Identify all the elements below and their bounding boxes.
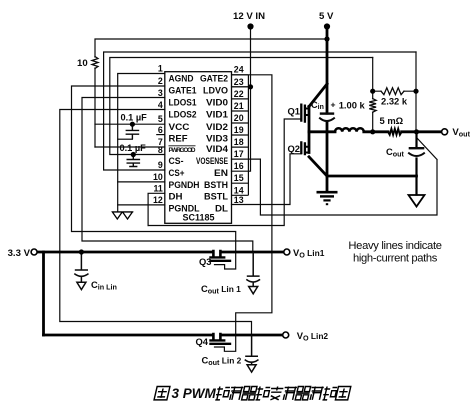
- wire to Vout terminal: [402, 130, 442, 133]
- terminal dot 5V: [324, 23, 330, 29]
- svg-text:Q1: Q1: [288, 106, 301, 117]
- junction divider node A: [370, 89, 375, 94]
- transistor Q1: [301, 104, 305, 123]
- svg-text:BSTH: BSTH: [204, 180, 228, 190]
- svg-text:18: 18: [234, 137, 244, 147]
- wire cap C1 bottom to AGND: [118, 138, 133, 140]
- wire 3.3V heavy branch down: [42, 252, 45, 335]
- svg-text:5 V: 5 V: [319, 11, 334, 22]
- svg-text:3: 3: [158, 88, 163, 98]
- svg-text:Q4: Q4: [196, 336, 209, 347]
- svg-text:15: 15: [234, 173, 244, 183]
- svg-text:10: 10: [153, 172, 163, 182]
- wire CS+ sense pin9 to divider right: [104, 52, 416, 170]
- svg-text:9: 9: [158, 160, 163, 170]
- svg-text:LDVO: LDVO: [203, 86, 228, 96]
- pin ladder right edge: [247, 75, 249, 196]
- svg-text:AGND: AGND: [169, 74, 194, 84]
- terminal 3.3V: [31, 249, 37, 255]
- wire LDOS1 pin3 sense Vo Lin1: [82, 98, 253, 253]
- wire GATE1 pin2 to Q3 gate: [72, 86, 236, 269]
- junction divider node B: [413, 89, 418, 94]
- svg-text:24: 24: [234, 65, 244, 75]
- svg-text:VCC: VCC: [169, 122, 191, 132]
- svg-text:5 mΩ: 5 mΩ: [380, 115, 404, 126]
- svg-text:+: +: [331, 100, 336, 110]
- svg-text:Cin: Cin: [311, 100, 324, 111]
- svg-text:GATE2: GATE2: [200, 74, 228, 84]
- svg-text:EN: EN: [214, 168, 228, 178]
- wire PGNDH pin10: [118, 181, 165, 183]
- wire VOSENSE pin17 to Vout sense: [232, 138, 438, 215]
- svg-text:16: 16: [234, 161, 244, 171]
- wire bottom ground heavy: [327, 175, 417, 178]
- svg-text:17: 17: [234, 149, 244, 159]
- svg-text:high-current paths: high-current paths: [353, 253, 438, 265]
- wire divider node A vertical: [372, 58, 374, 133]
- svg-text:0.1 µF: 0.1 µF: [120, 143, 147, 153]
- pin numbers left 1-12: [153, 64, 163, 206]
- ground arrow under Cin Lin: [77, 282, 86, 289]
- ground arrow under Cout Lin 2: [247, 365, 256, 372]
- wire 2.32k stubs: [373, 90, 416, 92]
- svg-text:6: 6: [158, 125, 163, 135]
- svg-text:12 V IN: 12 V IN: [233, 11, 265, 22]
- svg-text:Heavy lines indicate: Heavy lines indicate: [348, 240, 442, 252]
- wire rail to Q1 drain diagonal: [309, 84, 327, 107]
- ground arrow under Cout Lin 1: [249, 287, 258, 294]
- svg-text:22: 22: [234, 89, 244, 99]
- ground double-triangle AGND: [112, 212, 133, 219]
- terminal dot 12V: [247, 23, 253, 29]
- svg-text:CS+: CS+: [169, 168, 185, 178]
- wire CS- sense pin8 to divider left: [110, 58, 373, 155]
- capacitor Cin Lin: [74, 252, 88, 282]
- svg-text:Q2: Q2: [288, 143, 301, 154]
- svg-text:VID0: VID0: [206, 98, 228, 108]
- svg-text:3 PWM: 3 PWM: [172, 386, 217, 401]
- capacitor Cout Lin 2: [245, 335, 259, 365]
- wire VCC pin5: [95, 123, 165, 125]
- wire 12V feed to LDVO and EN: [232, 27, 251, 172]
- svg-text:VOSENSE: VOSENSE: [196, 156, 228, 166]
- svg-text:VID1: VID1: [206, 110, 228, 120]
- wire pin12 PGNDL: [118, 204, 165, 206]
- svg-text:10: 10: [77, 58, 88, 69]
- svg-text:3.3 V: 3.3 V: [8, 248, 31, 259]
- svg-text:0.1 µF: 0.1 µF: [121, 113, 148, 123]
- wire 5V to R1 top: [95, 39, 327, 147]
- inductor L1: [335, 128, 364, 132]
- junction VCC cap C1: [130, 122, 135, 127]
- svg-text:12: 12: [153, 195, 163, 205]
- capacitor C1 0.1uF: [126, 124, 140, 139]
- svg-text:1: 1: [158, 64, 163, 74]
- svg-text:4: 4: [158, 100, 163, 110]
- capacitor C2 0.1uF: [127, 155, 141, 167]
- wire pin11 DH: [148, 193, 165, 225]
- svg-text:VO Lin1: VO Lin1: [293, 247, 325, 260]
- op-amp U1 SC1185 controller IC box: [165, 72, 232, 224]
- svg-text:REF: REF: [169, 134, 189, 144]
- wire DH under IC to Q1 gate: [148, 119, 301, 226]
- svg-text:11: 11: [153, 184, 162, 194]
- svg-text:LDOS2: LDOS2: [169, 110, 197, 120]
- svg-text:2.32 k: 2.32 k: [381, 96, 408, 107]
- capacitor Cout Lin 1: [246, 252, 260, 286]
- svg-text:Cout Lin 2: Cout Lin 2: [202, 355, 242, 368]
- svg-text:DL: DL: [215, 204, 229, 214]
- svg-text:VO Lin2: VO Lin2: [297, 330, 329, 343]
- svg-text:Cin Lin: Cin Lin: [91, 279, 117, 292]
- svg-text:BSTL: BSTL: [204, 192, 229, 202]
- svg-text:8: 8: [158, 145, 163, 155]
- wire AGND pin1: [118, 74, 165, 212]
- junction CS- cap C2: [131, 152, 136, 157]
- wire PWRGOOD pull-up pin7: [95, 146, 165, 148]
- capacitor Cin: [320, 112, 334, 114]
- svg-text:19: 19: [234, 125, 244, 135]
- svg-text:CS-: CS-: [169, 156, 184, 166]
- svg-text:PWRGOOD: PWRGOOD: [169, 147, 196, 154]
- svg-text:1.00 k: 1.00 k: [339, 100, 366, 111]
- pin numbers right 24-13: [234, 65, 244, 206]
- svg-text:21: 21: [234, 101, 244, 111]
- svg-text:2: 2: [158, 76, 163, 86]
- caption figure 3 PWM chinese: [154, 386, 351, 401]
- svg-text:5: 5: [158, 114, 163, 124]
- wire 3.3V heavy rail to Vo Lin1: [37, 251, 283, 254]
- svg-text:13: 13: [234, 195, 244, 205]
- pin 6 REF stub: [156, 134, 165, 136]
- junction 1.00k output line: [370, 129, 375, 134]
- junction 3.3V Cin Lin: [79, 249, 84, 254]
- svg-text:VID2: VID2: [206, 122, 228, 132]
- resistor R1 10: [92, 57, 98, 69]
- wire LDOS2 pin4 sense Vo Lin2: [60, 110, 252, 336]
- wire Cout leads: [415, 132, 417, 195]
- transistor Q2: [301, 141, 305, 155]
- terminal Vout: [442, 129, 448, 135]
- pin stub rungs right: [232, 75, 249, 196]
- svg-text:20: 20: [234, 113, 244, 123]
- svg-text:Vout: Vout: [452, 127, 470, 139]
- svg-text:DH: DH: [169, 192, 183, 202]
- svg-text:SC1185: SC1185: [183, 213, 215, 223]
- resistor R4 5 milliohm: [388, 129, 402, 135]
- wire 5V rail heavy: [326, 27, 329, 192]
- terminal Vo Lin1: [284, 249, 290, 255]
- wire divider node B vertical: [415, 52, 417, 132]
- junction LDVO 12V: [248, 84, 253, 89]
- junction 5V top wire: [324, 36, 329, 41]
- overline PWRGOOD: [169, 145, 196, 147]
- wire Q1-Q2 conductor: [308, 107, 311, 153]
- svg-text:LDOS1: LDOS1: [169, 98, 197, 108]
- IC pin name labels: [169, 74, 229, 223]
- wire phase node to inductor: [309, 130, 335, 133]
- svg-text:Cout Lin 1: Cout Lin 1: [201, 283, 241, 296]
- svg-text:GATE1: GATE1: [169, 86, 197, 96]
- transistor Q3: [213, 251, 220, 257]
- svg-text:Q3: Q3: [199, 256, 212, 267]
- svg-text:VID4: VID4: [206, 144, 228, 154]
- ground earth under 5V rail: [317, 191, 338, 194]
- capacitor Cout: [409, 147, 425, 149]
- wire DL pin13 to Q2 gate: [232, 154, 302, 205]
- junction sense output line: [414, 129, 419, 134]
- resistor R2 1.00k: [369, 99, 376, 113]
- svg-text:Cout: Cout: [386, 146, 405, 159]
- resistor R3 2.32k: [381, 88, 404, 95]
- wire Q2 source diagonal to ground node: [309, 157, 327, 176]
- svg-text:PGNDH: PGNDH: [169, 180, 200, 190]
- wire heavy to Vo Lin2: [44, 334, 283, 337]
- svg-text:VID3: VID3: [206, 134, 228, 144]
- wire inductor to sense resistor: [364, 130, 388, 133]
- wire GATE2 pin24 to Q4 gate: [215, 75, 272, 352]
- terminal Vo Lin2: [283, 332, 289, 338]
- transistor Q4: [213, 334, 220, 340]
- ground triangle under Cout: [409, 195, 425, 207]
- svg-text:14: 14: [234, 185, 244, 195]
- svg-text:23: 23: [234, 77, 244, 87]
